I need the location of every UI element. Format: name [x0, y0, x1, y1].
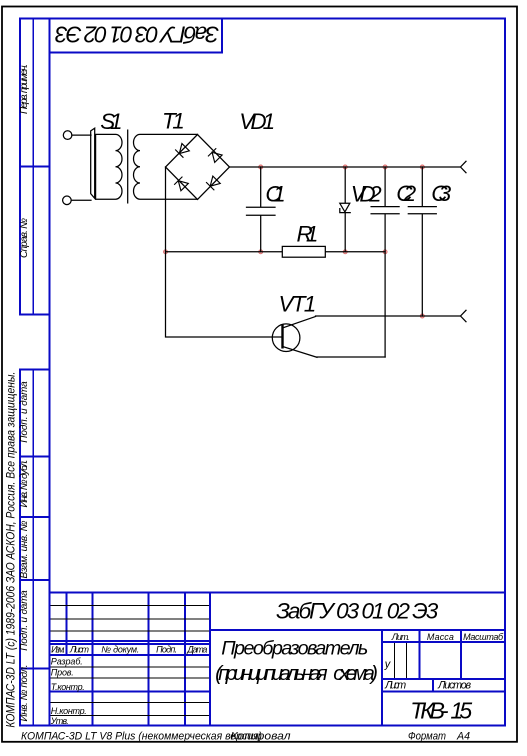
svg-text:Лист: Лист [384, 679, 406, 691]
svg-text:ЗабГУ 03 01 02 Э3: ЗабГУ 03 01 02 Э3 [55, 21, 219, 47]
svg-text:Листов: Листов [437, 680, 471, 692]
svg-text:Лист: Лист [69, 645, 90, 655]
svg-text:ТКВ-: ТКВ- [410, 698, 449, 724]
svg-text:Преобразователь: Преобразователь [221, 638, 368, 660]
svg-text:VD1: VD1 [239, 109, 275, 134]
svg-text:КОМПАС-3D LT V8 Plus (некоммер: КОМПАС-3D LT V8 Plus (некоммерческая вер… [21, 731, 262, 743]
svg-text:C2: C2 [396, 181, 416, 206]
svg-text:ЗабГУ 03 01 02 Э3: ЗабГУ 03 01 02 Э3 [276, 599, 439, 624]
svg-text:Н.контр.: Н.контр. [51, 706, 87, 716]
svg-text:схема): схема) [333, 662, 378, 685]
svg-text:Дата: Дата [186, 645, 207, 655]
svg-text:Копировал: Копировал [231, 731, 291, 743]
svg-text:C1: C1 [265, 182, 285, 207]
svg-text:S1: S1 [100, 109, 122, 134]
svg-text:Подп. и дата: Подп. и дата [19, 590, 30, 651]
svg-text:Т.контр.: Т.контр. [51, 682, 85, 692]
svg-text:Перв. примен.: Перв. примен. [19, 64, 30, 114]
svg-text:Справ. №: Справ. № [19, 218, 30, 258]
svg-text:Утв.: Утв. [50, 716, 69, 726]
svg-text:5: 5 [459, 698, 472, 724]
svg-text:Масса: Масса [427, 632, 454, 642]
svg-text:№ докум.: № докум. [101, 645, 139, 655]
svg-text:(принципиальная: (принципиальная [215, 662, 328, 685]
svg-text:Подп. и дата: Подп. и дата [19, 381, 30, 443]
svg-text:Формат: Формат [408, 731, 446, 743]
svg-text:Инв. № дубл.: Инв. № дубл. [18, 460, 30, 508]
svg-text:Лит.: Лит. [391, 632, 410, 642]
svg-text:T1: T1 [162, 108, 185, 133]
svg-text:Взам. инв. №: Взам. инв. № [19, 520, 30, 578]
svg-text:R1: R1 [296, 222, 318, 247]
svg-text:Подп.: Подп. [156, 645, 177, 655]
svg-text:C3: C3 [431, 181, 451, 206]
svg-text:А4: А4 [456, 731, 470, 743]
svg-text:КОМПАС-3D LT (с) 1989-2006 ЗАО: КОМПАС-3D LT (с) 1989-2006 ЗАО АСКОН, Ро… [6, 372, 18, 728]
svg-text:Разраб.: Разраб. [51, 656, 83, 666]
svg-text:Масштаб: Масштаб [463, 632, 504, 642]
svg-text:Инв. № подл.: Инв. № подл. [19, 665, 30, 722]
svg-text:VD2: VD2 [351, 182, 382, 207]
svg-text:VT1: VT1 [279, 291, 317, 316]
svg-text:Изм.: Изм. [51, 645, 65, 655]
svg-text:Пров.: Пров. [51, 668, 74, 678]
